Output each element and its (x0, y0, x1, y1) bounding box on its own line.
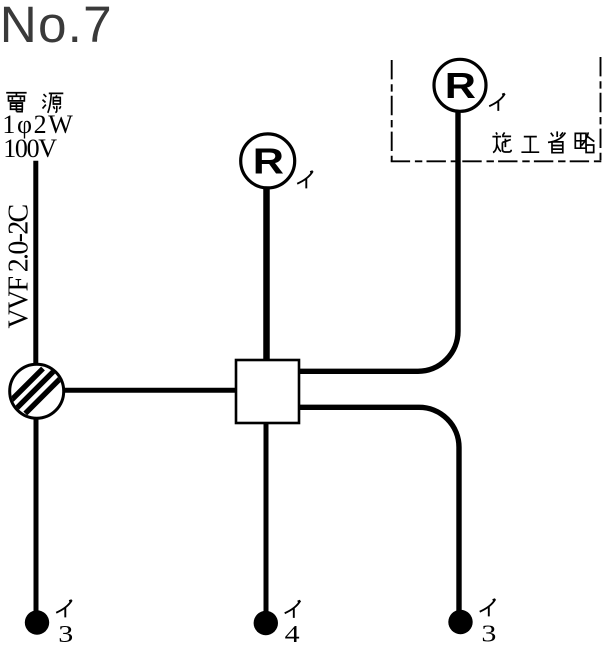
switch イ4 (middle, single-pole) (254, 611, 278, 635)
wire: outlet box up to lamp R イ (middle) (263, 188, 270, 360)
label 施工省略 (492, 131, 594, 152)
construction-omitted boundary (chain-line box) (391, 57, 602, 161)
svg-text:No.7: No.7 (0, 0, 113, 53)
outlet box B1 (236, 360, 299, 423)
svg-text:R: R (253, 142, 284, 182)
wire: joint box down to switch イ3 (34, 417, 39, 615)
wire: outlet box to top-right lamp (curved) (300, 112, 459, 371)
label イ (top lamp) (489, 94, 505, 111)
svg-text:100V: 100V (3, 134, 57, 163)
label イ (right switch) (480, 599, 496, 616)
svg-text:4: 4 (285, 621, 300, 646)
wire: outlet box down to switch イ4 (264, 423, 269, 615)
wire: power source down to joint box (33, 161, 38, 365)
svg-text:3: 3 (58, 621, 73, 646)
joint box J1 (hatched circle) (0, 364, 70, 418)
label イ (middle switch) (285, 601, 301, 618)
svg-text:3: 3 (481, 620, 496, 646)
label イ (left switch) (56, 600, 72, 617)
lamp R イ (top right, in omitted area) (434, 59, 486, 111)
switch イ3 (left, single-pole) (25, 610, 49, 634)
wire: joint box to outlet box (63, 388, 237, 393)
power source label 電源 (6, 93, 63, 113)
label イ (middle lamp) (297, 171, 313, 188)
svg-text:VVF 2.0-2C: VVF 2.0-2C (4, 204, 35, 328)
lamp R イ (middle ceiling light) (241, 134, 295, 188)
switch イ3 (right, single-pole) (448, 610, 472, 634)
wire: outlet box to right switch (curved) (300, 407, 460, 615)
svg-text:R: R (445, 66, 476, 106)
